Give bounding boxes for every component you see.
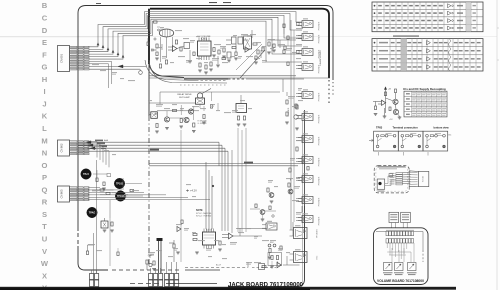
grid reference letters B-Y [41, 1, 49, 290]
resistors R612-R615 [232, 46, 236, 48]
svg-text:ICs and DC Supply Decoupling: ICs and DC Supply Decoupling [403, 87, 446, 91]
svg-text:REC: REC [270, 242, 275, 244]
svg-text:PHONES: PHONES [317, 229, 319, 238]
svg-text:CN 603: CN 603 [60, 189, 64, 198]
volume board feed stubs [376, 231, 386, 233]
relay area wiring [149, 102, 196, 104]
svg-text:CN 602: CN 602 [60, 143, 64, 152]
svg-text:I: I [43, 87, 45, 96]
mid bottom parts [146, 255, 156, 271]
svg-text:C641: C641 [148, 255, 153, 257]
component value labels [86, 27, 305, 265]
svg-text:G: GREEN: G: GREEN [198, 123, 207, 125]
relay RY601 [196, 98, 205, 104]
dashed AC wire [185, 267, 248, 269]
test point TP102 [115, 191, 125, 201]
op-amp IC601b [245, 47, 249, 52]
transistor Q604 [184, 117, 189, 122]
svg-text:AC-H: AC-H [216, 264, 221, 267]
bias resistors R601-R604 [156, 44, 158, 48]
table: jack switching matrix 1 [372, 2, 483, 32]
parts near TP102 [92, 189, 114, 195]
svg-text:T: T [42, 222, 47, 231]
jack board outline [78, 6, 333, 287]
pot VR phones [395, 263, 404, 271]
svg-text:X: X [42, 271, 47, 280]
harness tick arrows [97, 43, 99, 45]
svg-text:CN 601: CN 601 [60, 54, 64, 63]
connector CN606 [149, 268, 163, 287]
bus arrows [86, 141, 91, 144]
svg-text:B: B [42, 1, 48, 10]
TP tap wires [126, 183, 143, 185]
wires down to CN605 [93, 233, 95, 273]
jack J610 [296, 194, 321, 206]
svg-text:TP+5: TP+5 [83, 173, 89, 176]
remote pin strip [390, 173, 403, 185]
wires to output jacks [233, 235, 262, 237]
parts near TP+5 [93, 170, 111, 190]
+B regulator circuit [373, 87, 401, 121]
arrow into TP83 box [369, 139, 373, 142]
svg-text:TPAG: TPAG [89, 212, 96, 215]
svg-text:N: N [42, 149, 47, 158]
bottom black bar [0, 287, 456, 290]
svg-text:Terminal connection: Terminal connection [393, 126, 419, 130]
ICs and DC supply decoupling table [403, 87, 447, 117]
wire continuation marks [209, 2, 217, 4]
TP83 pinout box 2 [398, 131, 423, 151]
svg-text:VOLUME BOARD 7617108000: VOLUME BOARD 7617108000 [377, 278, 425, 283]
svg-text:+4.2V: +4.2V [190, 189, 197, 193]
wire harness from CN601 to amp stage [89, 12, 303, 88]
ribbon cable hatch [402, 171, 418, 187]
svg-text:P: P [42, 173, 47, 182]
volume cable plug [418, 171, 429, 186]
volume board internal wires [387, 243, 414, 262]
remote VR box 1 [389, 212, 399, 228]
opamp U-D [177, 227, 181, 232]
transistor Q602 [164, 117, 169, 122]
svg-text:G: G [42, 63, 48, 72]
resistor R605 [184, 43, 190, 49]
svg-text:HEADPHONES: HEADPHONES [319, 50, 322, 66]
resistor R644 [117, 252, 119, 256]
TP83 pinout box 3 [423, 131, 448, 151]
svg-text:TP83: TP83 [376, 126, 383, 130]
coil box S601 [151, 112, 158, 119]
pot VR mic [408, 263, 417, 271]
Q601 leads [160, 37, 162, 62]
svg-text:R: R [42, 198, 48, 207]
grounds relay area [155, 130, 159, 132]
bus dash-dot continuation [148, 116, 150, 266]
svg-text:NOTE: NOTE [196, 209, 203, 212]
feedback network box [268, 253, 282, 269]
svg-text:M: M [41, 136, 47, 145]
signal wire pair L [149, 75, 296, 77]
jack J604 [296, 61, 321, 73]
op-amp IC601a [173, 46, 178, 52]
svg-text:PHONES: PHONES [319, 34, 321, 43]
scan fold line [0, 36, 497, 38]
signal wires to phones jacks [149, 163, 303, 165]
svg-text:PHONES: PHONES [319, 176, 321, 185]
coupling caps C605 C606 [232, 37, 237, 44]
test point TP+5 [81, 169, 91, 179]
svg-text:W: W [41, 259, 49, 268]
op-amp IC604b [229, 233, 234, 239]
IC604 headphone amp [203, 229, 216, 249]
remote internal wires [385, 176, 396, 184]
svg-text:S71-4 : YGE700: S71-4 : YGE700 [196, 216, 212, 218]
CN603 branch down [109, 200, 111, 218]
svg-text:PHONES: PHONES [319, 21, 321, 30]
mute line resistors [268, 42, 270, 46]
CN603 fan wires [88, 187, 100, 189]
component tap CN605 area [88, 245, 94, 251]
jack J601 [296, 18, 321, 30]
connector CN607 [165, 262, 179, 287]
driver cluster Q610 [250, 204, 276, 221]
remote VR box 2 [401, 212, 411, 228]
svg-text:Q: Q [42, 185, 48, 194]
svg-text:TO CN: TO CN [423, 175, 425, 182]
table: jack switching matrix 2 [372, 39, 483, 71]
wires to jack column [267, 39, 296, 41]
long rail y92 [160, 91, 280, 93]
IC601 lower network [188, 50, 225, 74]
volume board outline [374, 228, 429, 285]
test point TPAG [87, 207, 97, 217]
svg-text:E: E [42, 38, 47, 47]
svg-text:MUTE AMP: MUTE AMP [179, 96, 190, 99]
mini cluster R [288, 183, 290, 187]
input R network [193, 233, 197, 235]
svg-text:K: K [42, 112, 48, 121]
capacitor C601 [153, 49, 157, 51]
pot VR L-ch [384, 263, 393, 271]
wire harness lower fan [89, 65, 146, 67]
svg-text:PHONES: PHONES [319, 92, 321, 101]
out jack J614 [290, 249, 308, 262]
output network R610 R611 [213, 48, 215, 52]
cap cluster right of CN607 [169, 240, 180, 262]
table 2 caption [393, 35, 419, 37]
left bias parts [147, 38, 162, 60]
IC602 DC volume [197, 36, 211, 60]
wires bottom right edge [292, 222, 294, 236]
remote control unit outline [374, 166, 409, 193]
mini cluster L [267, 188, 269, 192]
svg-text:PHONES: PHONES [319, 136, 321, 145]
jack J608 [296, 154, 321, 166]
harness curve bundle [145, 60, 196, 81]
svg-text:L: L [42, 124, 47, 133]
jack J602 [296, 31, 321, 43]
svg-text:IC601: IC601 [201, 38, 208, 41]
electrolytic C607 [244, 36, 252, 49]
thick wire pair to CN606 [158, 240, 160, 273]
svg-text:TP103: TP103 [116, 183, 124, 186]
svg-text:RELAY DRIVE: RELAY DRIVE [177, 93, 192, 96]
CN602 fan wires [88, 142, 98, 158]
svg-text:PHONES: PHONES [319, 197, 321, 206]
connector CN602 [58, 140, 70, 156]
test point TP103 [114, 178, 124, 188]
svg-text:MIC: MIC [317, 255, 319, 259]
out jack J613 [290, 225, 308, 238]
vertical jack feed wires [290, 20, 292, 230]
relay detector Q605 [197, 93, 202, 98]
svg-text:TP102: TP102 [117, 195, 125, 198]
thick supply bus [145, 9, 329, 266]
TP83 pinout box 1 [374, 131, 399, 151]
junction dot [212, 185, 214, 187]
svg-text:S: S [42, 210, 47, 219]
right edge components [286, 100, 288, 104]
svg-text:PHONES: PHONES [319, 216, 321, 225]
jack J603 [296, 46, 321, 58]
bundle-side parts [154, 21, 158, 23]
mid caps [227, 40, 286, 64]
connector CN603 [58, 186, 70, 202]
svg-text:J: J [42, 99, 46, 108]
svg-text:U: U [42, 235, 48, 244]
svg-text:O: O [42, 161, 48, 170]
svg-text:PHONES: PHONES [288, 107, 290, 116]
audio bus wires [79, 139, 229, 166]
volume board pin row 2 [386, 239, 414, 243]
svg-text:PHONES: PHONES [319, 114, 321, 123]
svg-text:AAA: AAA [104, 139, 109, 142]
jack J611 [296, 213, 321, 225]
REC network [268, 242, 282, 259]
jack J609 [296, 173, 321, 185]
diagonal sense wire [240, 50, 265, 78]
volume board pin row 1 [386, 230, 414, 236]
shielded transistor Q601 [159, 29, 173, 37]
svg-text:H: H [42, 75, 47, 84]
jack J607 [296, 133, 321, 145]
svg-text:D: D [42, 26, 48, 35]
op-amp IC605 [277, 262, 281, 267]
right bundle verticals [237, 128, 239, 232]
remote switch S80 [377, 179, 385, 189]
jack J606 [296, 111, 321, 123]
filter R/C under CN603 [101, 221, 108, 228]
svg-text:bottom view: bottom view [434, 126, 450, 130]
resistors at top jacks [283, 23, 299, 66]
svg-text:C: C [42, 13, 48, 22]
transistor Q603 [188, 109, 193, 114]
jack J605 [296, 89, 321, 101]
bias resistors relay area [156, 124, 158, 128]
right margin rule [496, 0, 498, 290]
jack column resistors [296, 105, 298, 109]
svg-text:PHONES: PHONES [319, 157, 321, 166]
connector CN601 [58, 46, 70, 72]
connector CN605 [90, 270, 99, 287]
regulator block IC603 [236, 95, 247, 126]
out jack J612 [266, 223, 277, 230]
svg-text:F: F [42, 50, 47, 59]
svg-text:IC602: IC602 [206, 230, 213, 232]
